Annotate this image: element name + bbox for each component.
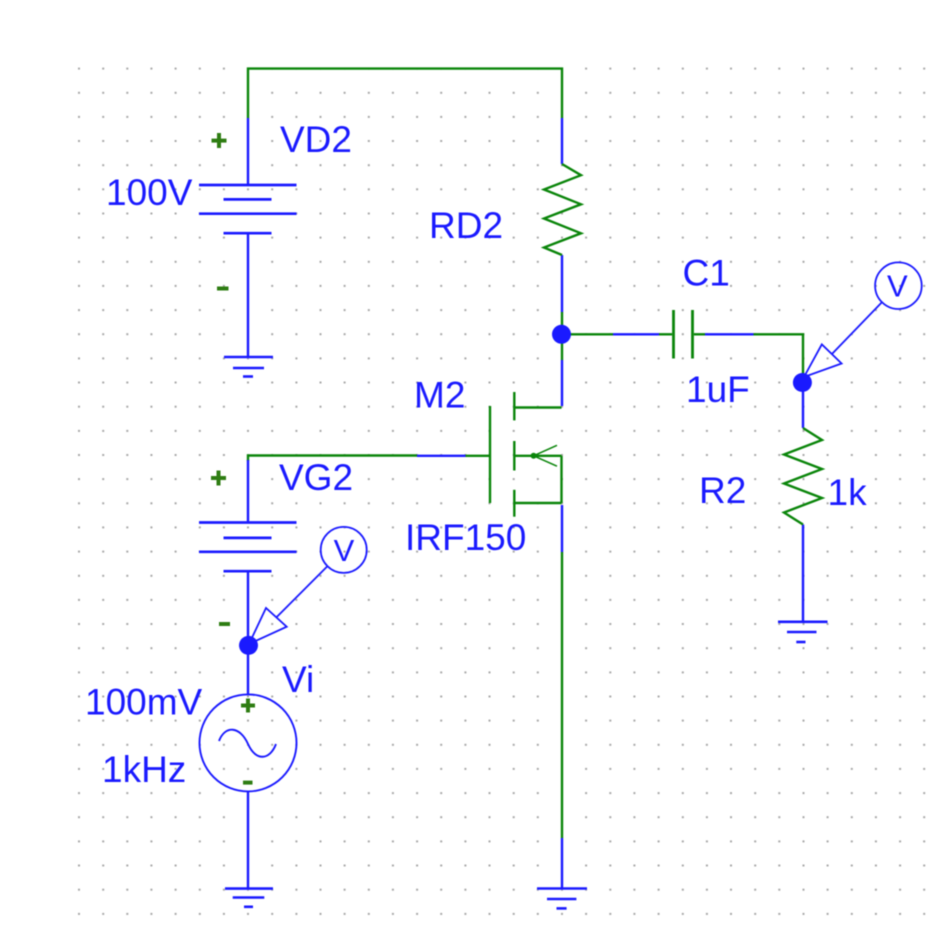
lead C1 right — [705, 333, 754, 335]
ground R2 — [778, 622, 828, 642]
svg-text:VG2: VG2 — [279, 457, 353, 498]
polarity plus Vi — [241, 699, 255, 713]
lead VG2 top — [247, 460, 249, 523]
lead VD2 top — [247, 118, 249, 185]
probe V output — [804, 262, 922, 377]
label M2 — [414, 375, 465, 416]
lead VG2 bottom — [247, 571, 249, 645]
node N3 — [239, 636, 258, 655]
lead Vi top — [247, 645, 249, 695]
polarity minus VD2 — [217, 287, 229, 291]
svg-text:V: V — [334, 533, 355, 568]
svg-text:RD2: RD2 — [429, 205, 503, 246]
label IRF150 — [405, 517, 526, 558]
polarity minus VG2 — [219, 622, 230, 626]
capacitor C1 — [674, 310, 693, 359]
lead R2 top — [802, 383, 804, 428]
wire source run — [561, 552, 563, 838]
svg-text:V: V — [887, 269, 908, 304]
label Vi — [282, 659, 314, 700]
label C1 — [683, 253, 730, 294]
lead VD2 bottom — [247, 233, 249, 357]
node N1 — [552, 325, 571, 344]
label VG2 — [279, 457, 353, 498]
probe V label output — [887, 269, 908, 304]
wire top bus — [248, 69, 562, 118]
lead gate blue — [417, 455, 466, 457]
svg-text:100mV: 100mV — [85, 682, 203, 723]
label 100mV — [85, 682, 203, 723]
polarity plus VG2 — [211, 471, 226, 486]
label 1k — [828, 472, 868, 513]
svg-text:1kHz: 1kHz — [102, 749, 186, 790]
probe V input — [249, 527, 367, 644]
svg-text:100V: 100V — [106, 172, 193, 213]
polarity plus VD2 — [212, 133, 227, 148]
wire cap stubs — [659, 333, 705, 335]
label 1kHz — [102, 749, 186, 790]
lead R2 bottom — [802, 525, 804, 622]
wire gate run — [248, 456, 490, 462]
polarity minus Vi — [243, 781, 253, 785]
svg-text:M2: M2 — [414, 375, 465, 416]
lead C1 left — [613, 333, 659, 335]
wire output corner — [754, 334, 804, 374]
resistor RD2 — [544, 164, 581, 255]
svg-text:IRF150: IRF150 — [405, 517, 526, 558]
label 100V — [106, 172, 193, 213]
probe V label input — [334, 533, 355, 568]
lead M2 source — [561, 505, 563, 552]
svg-text:VD2: VD2 — [280, 119, 352, 160]
svg-text:1k: 1k — [828, 472, 868, 513]
svg-text:1uF: 1uF — [686, 369, 750, 410]
ground Vi — [225, 889, 273, 907]
battery VG2 — [199, 523, 297, 572]
label RD2 — [429, 205, 503, 246]
mosfet M2 — [490, 392, 562, 517]
svg-text:Vi: Vi — [282, 659, 314, 700]
source Vi — [200, 694, 297, 791]
lead M2 drain — [561, 360, 563, 406]
label 1uF — [686, 369, 750, 410]
ground M2 source — [537, 889, 587, 909]
lead mid ground — [561, 838, 563, 889]
label VD2 — [280, 119, 352, 160]
svg-text:R2: R2 — [699, 470, 746, 511]
svg-text:C1: C1 — [683, 253, 730, 294]
lead Vi bottom — [247, 792, 249, 889]
battery VD2 — [199, 185, 297, 233]
label R2 — [699, 470, 746, 511]
resistor R2 — [784, 428, 822, 525]
lead RD2 bottom — [561, 255, 563, 312]
node N2 — [793, 373, 812, 392]
wire node1 stubs — [562, 312, 613, 360]
lead RD2 top — [561, 118, 563, 164]
ground VD2 — [224, 357, 273, 377]
